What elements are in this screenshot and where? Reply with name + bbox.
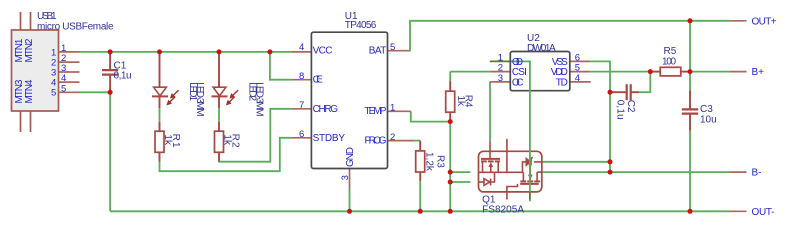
svg-text:C1: C1: [114, 60, 127, 71]
node VSS-C2: [608, 90, 613, 95]
Q1-FS8205A: [479, 139, 542, 200]
pin stub U1 CE: [291, 79, 312, 81]
transistor Q1 right FET contacts: [523, 162, 541, 182]
svg-text:TP4056: TP4056: [345, 20, 377, 31]
svg-text:0,1u: 0,1u: [614, 100, 625, 120]
wire over OD pin stub: [490, 60, 511, 62]
pin stub U1 VCC: [291, 51, 312, 53]
transistor Q1 right body diode D2: [523, 157, 542, 172]
svg-text:1k: 1k: [455, 96, 466, 108]
node B- VSS: [608, 170, 613, 175]
transistor Q1 left FET arrow: [488, 162, 493, 167]
svg-text:micro USBFemale: micro USBFemale: [37, 22, 114, 33]
wire VDD to R5: [590, 71, 650, 73]
connector USB1 mount stub bottom-left: [20, 111, 22, 132]
connector USB1 body: [12, 30, 59, 111]
wire BAT to OUT+ rail: [409, 21, 730, 51]
pin stub U1 TEMP: [388, 110, 411, 112]
wire LED2-R2 link: [218, 108, 220, 122]
svg-text:6: 6: [299, 129, 304, 140]
transistor Q1 left body diode D1: [479, 172, 495, 185]
node VCC-LED2: [217, 49, 222, 54]
node GND rail C3: [688, 209, 693, 214]
U2-DW01A-BODY: [510, 52, 570, 91]
svg-text:3: 3: [498, 73, 503, 84]
LEDS: [152, 52, 238, 108]
connector USB1 mount stub top-left: [20, 12, 22, 30]
svg-text:4: 4: [575, 73, 580, 84]
svg-text:100: 100: [662, 56, 676, 67]
transistor Q1 gate pin G1 top: [489, 141, 491, 158]
transistor Q1 body outline: [479, 151, 542, 192]
wire over Q1 S2 pin stub: [529, 192, 531, 200]
wire OC down to Q1 gate: [489, 82, 491, 141]
pin stub U2 OC: [490, 81, 511, 83]
transistor Q1 left FET gate line: [481, 158, 500, 160]
svg-text:PROG: PROG: [365, 136, 387, 147]
node VCC-C1: [108, 49, 113, 54]
svg-text:2: 2: [390, 132, 395, 143]
pin stub U2 VSS: [570, 60, 591, 62]
pin stub OUT+ label: [730, 20, 747, 22]
pin stub OUT- label: [730, 210, 747, 212]
wire Q1 upper right to VSS drop: [542, 161, 610, 163]
wire OUT+ vertical drop to C3: [689, 21, 691, 90]
pin stub B- label: [730, 171, 747, 173]
svg-text:LED-3MM: LED-3MM: [194, 82, 205, 117]
svg-text:OUT+: OUT+: [752, 16, 777, 27]
svg-text:BAT: BAT: [369, 46, 387, 57]
svg-text:5: 5: [51, 88, 56, 99]
svg-text:CHRG: CHRG: [313, 104, 339, 115]
op-amp U1 TP4056 body: [311, 32, 387, 168]
svg-text:MTN2: MTN2: [24, 38, 35, 62]
pin stub U1 STDBY: [291, 137, 312, 139]
LED LED1: [152, 52, 179, 108]
wire B- rail: [542, 171, 730, 173]
svg-text:MTN4: MTN4: [24, 79, 35, 103]
svg-text:R3: R3: [434, 155, 445, 168]
pin stub U2 CSI: [490, 71, 511, 73]
svg-text:5: 5: [61, 83, 66, 94]
resistor R3: [416, 141, 425, 182]
wire Q1 left pin upper: [450, 171, 470, 173]
pin stub B+ label: [730, 71, 747, 73]
resistor R5: [650, 67, 690, 76]
wire CSI to R4 top: [450, 71, 490, 73]
wire CE branch: [270, 52, 291, 80]
node Q1 left lower: [448, 180, 453, 185]
pin stub U2 TD: [570, 81, 591, 83]
pin stub U1 PROG: [388, 140, 414, 142]
svg-text:STDBY: STDBY: [313, 133, 346, 144]
pin stub USB 4: [59, 81, 80, 83]
pin stub U2 VDD: [570, 71, 591, 73]
node VDD-C2: [648, 69, 653, 74]
transistor Q1 pin bottom: [507, 184, 518, 200]
node GND rail R3: [418, 209, 423, 214]
svg-text:10u: 10u: [700, 114, 717, 125]
transistor Q1 left FET contacts: [483, 161, 499, 172]
CAPACITORS: [102, 52, 698, 131]
wire TEMP to R4 node: [411, 111, 450, 121]
pin stub U1 CHRG: [291, 108, 312, 110]
capacitor C2 leads: [610, 84, 639, 100]
svg-text:7: 7: [299, 100, 304, 111]
wire VCC rail from USB pin1 to U1 VCC: [80, 51, 291, 53]
node Q1 left upper: [448, 170, 453, 175]
svg-text:OUT-: OUT-: [752, 207, 775, 218]
wire R3 bottom to OUT- rail: [419, 181, 421, 211]
WIRES-GROUP: [80, 21, 731, 212]
USB1-CONNECTOR: [12, 12, 59, 132]
wire R5 to B+ label: [690, 71, 730, 73]
svg-text:TD: TD: [556, 77, 568, 88]
wire PROG to R3: [413, 140, 420, 142]
wire left drop to OUT- rail: [109, 92, 111, 211]
svg-text:OC: OC: [512, 77, 524, 88]
wire OUT- rail: [110, 210, 730, 212]
node VCC-CE: [267, 49, 272, 54]
wire USB pin5 to C1 node: [80, 91, 111, 93]
wire LED1-R1 link: [159, 108, 161, 122]
node GND rail R4: [448, 209, 453, 214]
svg-text:0,1u: 0,1u: [114, 71, 132, 82]
wire C2 right to VDD line: [639, 72, 650, 93]
connector USB1 mount stub top-right: [30, 12, 32, 30]
resistor R4: [446, 81, 455, 122]
pin stub U1 GND: [349, 169, 351, 190]
wire R2 to CHRG: [219, 109, 291, 162]
op-amp U2 DW01A body: [510, 52, 570, 91]
transistor Q1 right FET gate line: [520, 183, 539, 185]
svg-text:CE: CE: [313, 75, 324, 86]
svg-text:USB1: USB1: [37, 11, 57, 22]
U1-TP4056-BODY: [311, 32, 387, 168]
transistor Q1 inner rail: [479, 171, 524, 173]
node B+ R5: [688, 69, 693, 74]
svg-text:FS8205A: FS8205A: [482, 204, 524, 215]
pin stub USB 1: [59, 51, 80, 53]
wire R1 to STDBY: [160, 138, 291, 171]
LED LED2: [212, 52, 239, 108]
svg-text:GND: GND: [345, 147, 356, 167]
transistor Q1 left FET channel bar: [481, 160, 500, 162]
wire OD across U2: [510, 60, 531, 62]
wire U1 GND to OUT- rail: [349, 190, 351, 212]
svg-text:1: 1: [390, 102, 395, 113]
svg-text:LED-3MM: LED-3MM: [254, 82, 265, 117]
svg-text:4: 4: [299, 42, 304, 53]
resistor R2: [215, 122, 224, 162]
wire OD overlay through Q1: [529, 61, 531, 201]
JUNCTION-DOTS: [108, 18, 693, 214]
pin stub USB 2: [59, 61, 80, 63]
OLIVE-OVERLAP: [490, 60, 511, 62]
transistor Q1 drain pin top: [506, 139, 508, 173]
capacitor C3 leads: [682, 90, 698, 131]
transistor Q1 right FET channel bar: [520, 180, 540, 182]
wire Q1 left pin lower: [450, 181, 470, 183]
node GND-C1: [108, 90, 113, 95]
svg-text:3: 3: [340, 175, 351, 180]
svg-text:DW01A: DW01A: [527, 43, 556, 54]
node GND rail U1: [347, 209, 352, 214]
pin stub USB 5: [59, 91, 80, 93]
wire C3 bottom to OUT- rail: [689, 131, 691, 212]
wire VSS right and down to B-: [590, 61, 610, 172]
svg-text:C2: C2: [625, 100, 636, 113]
transistor Q1 right FET arrow: [528, 175, 533, 180]
node VCC-LED1: [157, 49, 162, 54]
node TEMP-R4: [448, 119, 453, 124]
STUBS-GROUP: [59, 21, 747, 212]
svg-text:B+: B+: [752, 67, 765, 78]
wire R4 node down to OUT- rail: [449, 122, 451, 212]
capacitor C1 leads: [102, 52, 118, 93]
svg-text:B-: B-: [752, 168, 762, 179]
svg-text:VCC: VCC: [313, 46, 333, 57]
node OUT+ drop: [688, 18, 693, 23]
connector USB1 mount stub bottom-right: [30, 111, 32, 132]
pin stub USB 3: [59, 71, 80, 73]
svg-text:1k: 1k: [162, 134, 173, 146]
node Q1 right upper: [608, 159, 613, 164]
wire R4 top lead join: [449, 72, 451, 81]
svg-text:TEMP: TEMP: [364, 106, 386, 117]
RESISTORS: [155, 67, 690, 181]
pin stub U1 BAT: [388, 50, 409, 52]
resistor R1: [155, 122, 164, 162]
svg-text:8: 8: [299, 71, 304, 82]
svg-text:1,2k: 1,2k: [424, 152, 435, 172]
svg-text:1k: 1k: [222, 134, 233, 146]
svg-text:5: 5: [390, 42, 395, 53]
